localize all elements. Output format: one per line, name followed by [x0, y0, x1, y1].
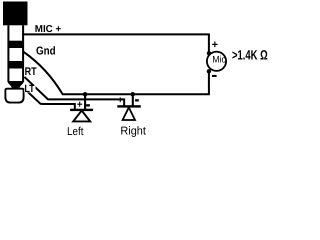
svg-text:Left: Left — [67, 126, 84, 138]
wire LT — [24, 88, 75, 110]
svg-text:Gnd: Gnd — [36, 46, 56, 58]
junction dot right — [131, 92, 136, 97]
svg-text:LT: LT — [24, 83, 35, 95]
svg-text:>1.4K Ω: >1.4K Ω — [232, 48, 268, 63]
mic MK1 circle — [207, 52, 226, 71]
jack J1 ring band 2 — [8, 61, 25, 69]
wire left speaker minus stub — [84, 94, 86, 110]
label right minus — [135, 99, 139, 101]
speaker SP1 left bar — [70, 109, 93, 111]
svg-text:+: + — [118, 95, 124, 106]
svg-text:+: + — [212, 39, 218, 51]
label mic minus — [212, 75, 217, 77]
label left minus — [86, 104, 90, 106]
speaker SP1 left cone — [73, 111, 90, 122]
speaker SP2 right cone — [123, 107, 135, 120]
jack J1 taper band — [7, 81, 24, 89]
jack J1 shaft outline — [8, 25, 23, 82]
speaker SP2 right bar — [117, 105, 141, 107]
mic node dot bottom — [207, 69, 211, 73]
svg-text:Mic: Mic — [212, 54, 226, 65]
svg-text:+: + — [77, 100, 83, 111]
label RT — [24, 66, 37, 78]
mic node dot top — [207, 51, 211, 55]
jack J1 body — [3, 2, 28, 26]
wire Gnd diagonal — [23, 52, 63, 95]
svg-text:MIC +: MIC + — [35, 24, 62, 35]
jack J1 tip — [5, 89, 23, 103]
wire Gnd horizontal to mic — [62, 71, 209, 94]
junction dot left — [83, 92, 88, 97]
label LT — [24, 83, 35, 95]
svg-text:Right: Right — [120, 125, 146, 137]
svg-text:RT: RT — [25, 66, 37, 78]
wire right speaker minus stub — [132, 94, 134, 106]
wire MIC+ top — [22, 34, 209, 52]
jack J1 ring band 1 — [8, 41, 25, 48]
wire RT — [25, 77, 125, 107]
